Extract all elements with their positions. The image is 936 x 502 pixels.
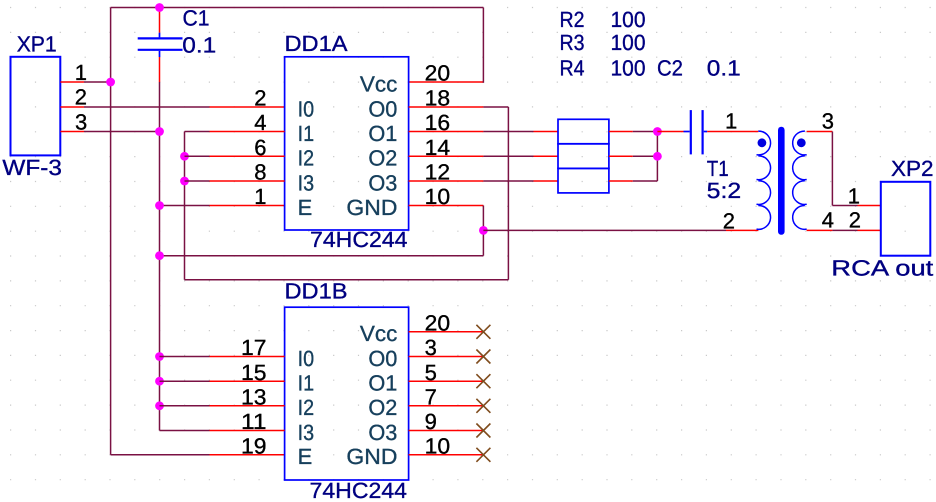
- svg-text:I3: I3: [298, 170, 315, 195]
- wire XP1 pin3 to node B: [84, 131, 160, 133]
- IC DD1A 74HC244: [285, 57, 409, 230]
- wire to DD1B I3 pin 11: [160, 430, 285, 432]
- wire DD1A O0 pin 18: [409, 106, 509, 108]
- wire feedback vertical left: [184, 132, 186, 280]
- svg-text:19: 19: [241, 434, 267, 459]
- wire ground bus vertical: [159, 57, 161, 431]
- wire feedback to DD1A I3: [185, 180, 285, 182]
- svg-text:R4: R4: [560, 56, 585, 81]
- wire R4 right: [609, 180, 658, 182]
- svg-text:3: 3: [822, 109, 834, 134]
- svg-text:1: 1: [254, 184, 266, 209]
- svg-text:XP2: XP2: [891, 156, 934, 181]
- svg-text:O2: O2: [368, 395, 397, 420]
- svg-text:O1: O1: [368, 121, 397, 146]
- no-connect mark pin 3: [476, 350, 490, 364]
- no-connect mark pin 20: [476, 325, 490, 339]
- wire DD1A O1 pin 16 to R2: [409, 131, 558, 133]
- svg-text:Vcc: Vcc: [360, 71, 398, 96]
- svg-text:XP1: XP1: [17, 31, 57, 56]
- wire T1 pin 3 to XP2 pin 1: [807, 132, 881, 206]
- svg-text:100: 100: [611, 56, 646, 81]
- node A junction XP1.1: [106, 78, 115, 87]
- svg-text:20: 20: [425, 61, 451, 86]
- svg-text:GND: GND: [346, 195, 397, 220]
- svg-text:C1: C1: [183, 5, 210, 30]
- node GND loop / T1.2 junction: [479, 226, 488, 235]
- transformer T1 secondary winding: [793, 131, 807, 229]
- wire XP1 pin1 stub: [60, 81, 84, 83]
- wire DD1B output pin 5: [409, 380, 484, 382]
- wire left bus vertical: [110, 8, 112, 455]
- svg-text:2: 2: [723, 208, 735, 233]
- svg-text:I2: I2: [298, 395, 315, 420]
- svg-text:O2: O2: [368, 146, 397, 171]
- connector XP2: [881, 182, 931, 256]
- wire XP1 pin2 stub: [60, 106, 84, 108]
- svg-text:I3: I3: [298, 420, 315, 445]
- svg-text:I0: I0: [298, 96, 315, 121]
- svg-text:100: 100: [611, 7, 646, 32]
- transformer T1 core: [778, 130, 785, 232]
- svg-text:2: 2: [849, 208, 861, 233]
- wire R3 right: [609, 155, 658, 157]
- wire feedback vertical right: [507, 107, 509, 280]
- svg-text:1: 1: [848, 184, 860, 209]
- svg-text:E: E: [298, 444, 313, 469]
- svg-text:R3: R3: [560, 30, 585, 55]
- svg-text:I1: I1: [298, 371, 315, 396]
- wire resistor join vertical: [656, 132, 658, 182]
- node ground bus lower junction: [155, 251, 164, 260]
- svg-text:3: 3: [75, 109, 87, 134]
- capacitor C1: [138, 8, 183, 58]
- svg-text:O3: O3: [368, 170, 397, 195]
- svg-text:74HC244: 74HC244: [310, 478, 408, 502]
- wire XP1 pin3 stub: [60, 131, 84, 133]
- svg-text:100: 100: [611, 30, 646, 55]
- svg-text:RCA out: RCA out: [831, 256, 933, 281]
- svg-text:2: 2: [75, 85, 87, 110]
- wire DD1A GND pin 10: [409, 205, 484, 207]
- svg-text:4: 4: [822, 208, 834, 233]
- wire DD1A E pin 1 feed: [160, 205, 285, 207]
- wire feedback to DD1A I2: [185, 155, 285, 157]
- no-connect mark pin 7: [476, 399, 490, 413]
- node top bus / C1 junction: [155, 3, 164, 12]
- transformer T1 primary polarity dot: [758, 138, 767, 147]
- svg-text:74HC244: 74HC244: [310, 227, 408, 252]
- wire to T1 pin 2: [483, 229, 758, 231]
- node ground bus I0-B junction: [155, 352, 164, 361]
- svg-text:O0: O0: [368, 346, 397, 371]
- svg-text:0.1: 0.1: [182, 32, 216, 57]
- no-connect mark pin 5: [476, 374, 490, 388]
- svg-text:DD1A: DD1A: [285, 31, 348, 56]
- svg-text:C2: C2: [657, 56, 683, 81]
- svg-text:DD1B: DD1B: [285, 279, 348, 304]
- wire T1 pin 4 to XP2 pin 2: [807, 229, 881, 231]
- wire feedback bottom: [185, 279, 509, 281]
- svg-text:I1: I1: [298, 121, 315, 146]
- wire to DD1B I2 pin 13: [160, 405, 285, 407]
- wire C2 to T1 pin 1: [707, 131, 758, 133]
- wire DD1A O2 pin 14 to R3: [409, 155, 558, 157]
- resistor R4: [558, 168, 609, 193]
- svg-text:O0: O0: [368, 96, 397, 121]
- wire feedback to DD1A I1: [185, 131, 285, 133]
- wire to C2: [657, 131, 683, 133]
- wire to DD1B I1 pin 15: [160, 380, 285, 382]
- svg-text:0.1: 0.1: [707, 56, 741, 81]
- wire GND loop vertical: [482, 206, 484, 256]
- capacitor C2: [684, 110, 708, 154]
- svg-text:I2: I2: [298, 146, 315, 171]
- IC DD1B 74HC244: [285, 307, 409, 480]
- svg-text:O3: O3: [368, 420, 397, 445]
- node feedback I2 junction: [180, 152, 189, 161]
- wire DD1B output pin 10: [409, 454, 484, 456]
- node R3 junction: [653, 152, 662, 161]
- svg-text:R2: R2: [560, 7, 585, 32]
- svg-text:1: 1: [725, 109, 737, 134]
- svg-text:Vcc: Vcc: [360, 321, 398, 346]
- wire DD1B output pin 20: [409, 331, 484, 333]
- svg-text:O1: O1: [368, 371, 397, 396]
- node ground bus / E-A junction: [155, 201, 164, 210]
- node R2/C2 junction: [653, 127, 662, 136]
- svg-text:WF-3: WF-3: [2, 155, 61, 180]
- wire XP1 pin1 to node A: [84, 81, 111, 83]
- node ground bus / XP1.3 junction: [155, 127, 164, 136]
- wire DD1A O3 pin 12 to R4: [409, 180, 558, 182]
- wire DD1B E pin 19 feed: [111, 454, 285, 456]
- transformer T1 primary winding: [757, 131, 771, 229]
- node ground bus I2-B junction: [155, 401, 164, 410]
- no-connect mark pin 9: [476, 424, 490, 438]
- wire Vcc DD1A pin 20: [409, 8, 484, 83]
- wire DD1B output pin 3: [409, 356, 484, 358]
- svg-text:2: 2: [254, 86, 266, 111]
- wire R2 right: [609, 131, 658, 133]
- svg-text:I0: I0: [298, 346, 315, 371]
- wire DD1B output pin 9: [409, 430, 484, 432]
- transformer T1 secondary polarity dot: [797, 138, 806, 147]
- wire XP1 pin2 to DD1A I0: [84, 106, 285, 108]
- no-connect mark pin 10: [476, 448, 490, 462]
- resistor R2: [558, 119, 609, 144]
- wire to DD1B I0 pin 17: [160, 356, 285, 358]
- svg-text:E: E: [298, 195, 313, 220]
- resistor R3: [558, 144, 609, 169]
- wire top bus: [111, 7, 484, 9]
- node feedback I3 junction: [180, 177, 189, 186]
- svg-text:GND: GND: [346, 444, 397, 469]
- wire GND loop bottom: [160, 255, 484, 257]
- node ground bus I1-B junction: [155, 377, 164, 386]
- connector XP1: [11, 57, 61, 156]
- wire DD1B output pin 7: [409, 405, 484, 407]
- svg-text:5:2: 5:2: [707, 178, 742, 203]
